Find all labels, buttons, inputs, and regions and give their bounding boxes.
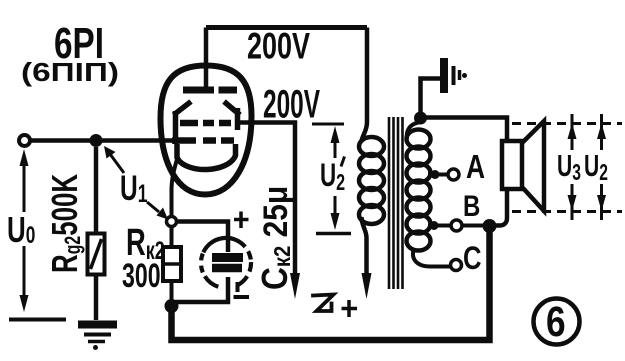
wire to ground top [421, 79, 441, 116]
wire secondary top entry [407, 122, 421, 139]
svg-text:(6ПIП): (6ПIП) [21, 57, 119, 87]
wire screen to supply [238, 123, 295, 285]
label 6P1 tube type [21, 19, 119, 87]
tap B [428, 219, 497, 233]
resistor Rk2 300 [163, 247, 181, 281]
wire resistor to bottom node [170, 281, 174, 308]
wire secondary top to speaker [424, 118, 507, 226]
label B [463, 188, 480, 222]
svg-text:200V: 200V [247, 26, 310, 67]
tube control grid dashes [172, 137, 234, 144]
label Rk2 [126, 222, 165, 265]
wire anode top [206, 25, 367, 30]
transformer secondary winding [407, 130, 431, 251]
dashed projection top [512, 122, 622, 125]
svg-text:C: C [463, 241, 482, 276]
wire capacitor top branch [176, 222, 228, 253]
label 300 [122, 258, 161, 295]
label A [466, 149, 485, 185]
label U0 [7, 210, 35, 250]
wire primary to plus supply [362, 217, 367, 284]
svg-text:Rg2500K: Rg2500K [45, 174, 86, 273]
wire bottom return [172, 228, 490, 340]
tube beam plate right [224, 102, 240, 131]
wire cathode to resistor [170, 226, 174, 248]
svg-text:6: 6 [546, 298, 566, 346]
capacitor Ck2 dashed circle [201, 238, 251, 287]
dimension U2 [597, 114, 606, 220]
transformer primary winding [359, 137, 384, 224]
tube screen grid dashes [180, 120, 231, 127]
tube cathode lead [172, 159, 178, 217]
arrow U1 to grid [104, 146, 124, 173]
input terminal [19, 135, 30, 146]
label U2 [584, 148, 608, 186]
label U2 prime [341, 157, 345, 167]
arrow supply down 1 [290, 273, 300, 299]
tap C [451, 260, 462, 271]
label Z plus [313, 295, 357, 318]
svg-text:A: A [466, 149, 485, 185]
dimension U3 [568, 114, 577, 220]
speaker LS [502, 121, 544, 211]
resistor Rg2 500K [88, 147, 105, 320]
arrow U1 to cathode [147, 202, 168, 220]
node grid junction [90, 134, 103, 147]
tap A [428, 169, 459, 180]
svg-text:200V: 200V [263, 83, 320, 127]
dashed projection bottom [512, 210, 622, 213]
tube anode plate [183, 87, 237, 94]
transformer core [389, 117, 403, 289]
wire secondary bottom to C [413, 248, 450, 267]
label minus capacitor [234, 282, 250, 297]
svg-text:B: B [463, 188, 480, 222]
figure number 6 badge [534, 298, 580, 346]
tube beam plate left [174, 102, 192, 145]
node secondary top [414, 112, 427, 125]
wire capacitor bottom branch [175, 277, 228, 302]
label C [463, 241, 482, 276]
label plus capacitor [234, 212, 249, 229]
node cathode bottom [165, 299, 179, 313]
tube U1 envelope [161, 66, 252, 195]
dimension U2 prime [312, 124, 351, 234]
tube cathode [177, 144, 236, 170]
capacitor Ck2 25u plates [212, 258, 243, 269]
arrow supply down 2 [362, 273, 372, 299]
wire grid input [31, 138, 176, 143]
wire anode lead [204, 28, 209, 89]
ground left [78, 325, 117, 351]
label U3 [557, 148, 581, 186]
svg-text:300: 300 [122, 258, 161, 295]
svg-text:Cк2 25μ: Cк2 25μ [255, 186, 295, 290]
label Rg2 500K [45, 174, 86, 273]
wire plate to transformer [362, 28, 368, 143]
node cathode [167, 217, 177, 227]
dimension U0 [9, 149, 66, 320]
label U1 [120, 170, 147, 208]
ground top right [444, 58, 467, 93]
label Ck2 25u [255, 186, 295, 290]
